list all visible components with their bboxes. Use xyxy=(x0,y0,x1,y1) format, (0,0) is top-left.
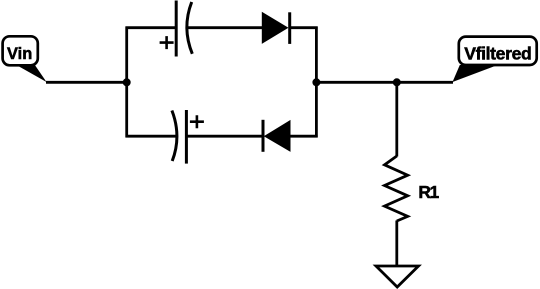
node junction dot left xyxy=(123,78,131,86)
capacitor C2 (bottom, polarized) curved plate xyxy=(172,111,177,162)
node junction dot right xyxy=(312,78,320,86)
wire top branch left segment xyxy=(126,26,177,29)
wire resistor top lead xyxy=(395,82,398,156)
wire bottom branch left segment xyxy=(126,135,177,138)
wire top branch middle segment xyxy=(187,26,263,29)
wire right vertical of loop xyxy=(315,27,318,138)
diode D1 cathode bar xyxy=(288,12,291,44)
wire left vertical of loop xyxy=(125,27,128,138)
ground xyxy=(376,266,419,287)
svg-text:R1: R1 xyxy=(418,182,439,202)
capacitor C2 plus sign xyxy=(190,115,204,128)
node junction dot resistor tap xyxy=(393,78,401,86)
wire resistor bottom lead xyxy=(395,221,398,267)
capacitor C1 (top, polarized) straight plate xyxy=(175,1,178,57)
node Vfiltered callout tail xyxy=(453,65,498,82)
node Vin callout tail xyxy=(16,65,46,83)
resistor R1 zigzag xyxy=(385,156,408,221)
wire top branch right segment xyxy=(290,26,318,29)
wire right node to Vfiltered xyxy=(316,81,453,84)
svg-text:Vin: Vin xyxy=(7,45,32,63)
diode D2 triangle xyxy=(265,121,290,151)
diode D1 (top) triangle xyxy=(262,13,287,43)
capacitor C1 plus sign xyxy=(160,36,174,49)
wire from Vin to left node xyxy=(46,81,127,84)
capacitor C2 straight plate xyxy=(185,110,188,164)
wire bottom branch middle segment xyxy=(187,135,263,138)
wire bottom branch right segment xyxy=(290,135,318,138)
node Vin callout box xyxy=(3,36,38,65)
capacitor C1 curved plate xyxy=(187,2,192,54)
diode D2 (bottom) cathode bar xyxy=(262,120,265,152)
svg-text:Vfiltered: Vfiltered xyxy=(464,43,531,63)
node Vfiltered callout box xyxy=(459,37,537,65)
